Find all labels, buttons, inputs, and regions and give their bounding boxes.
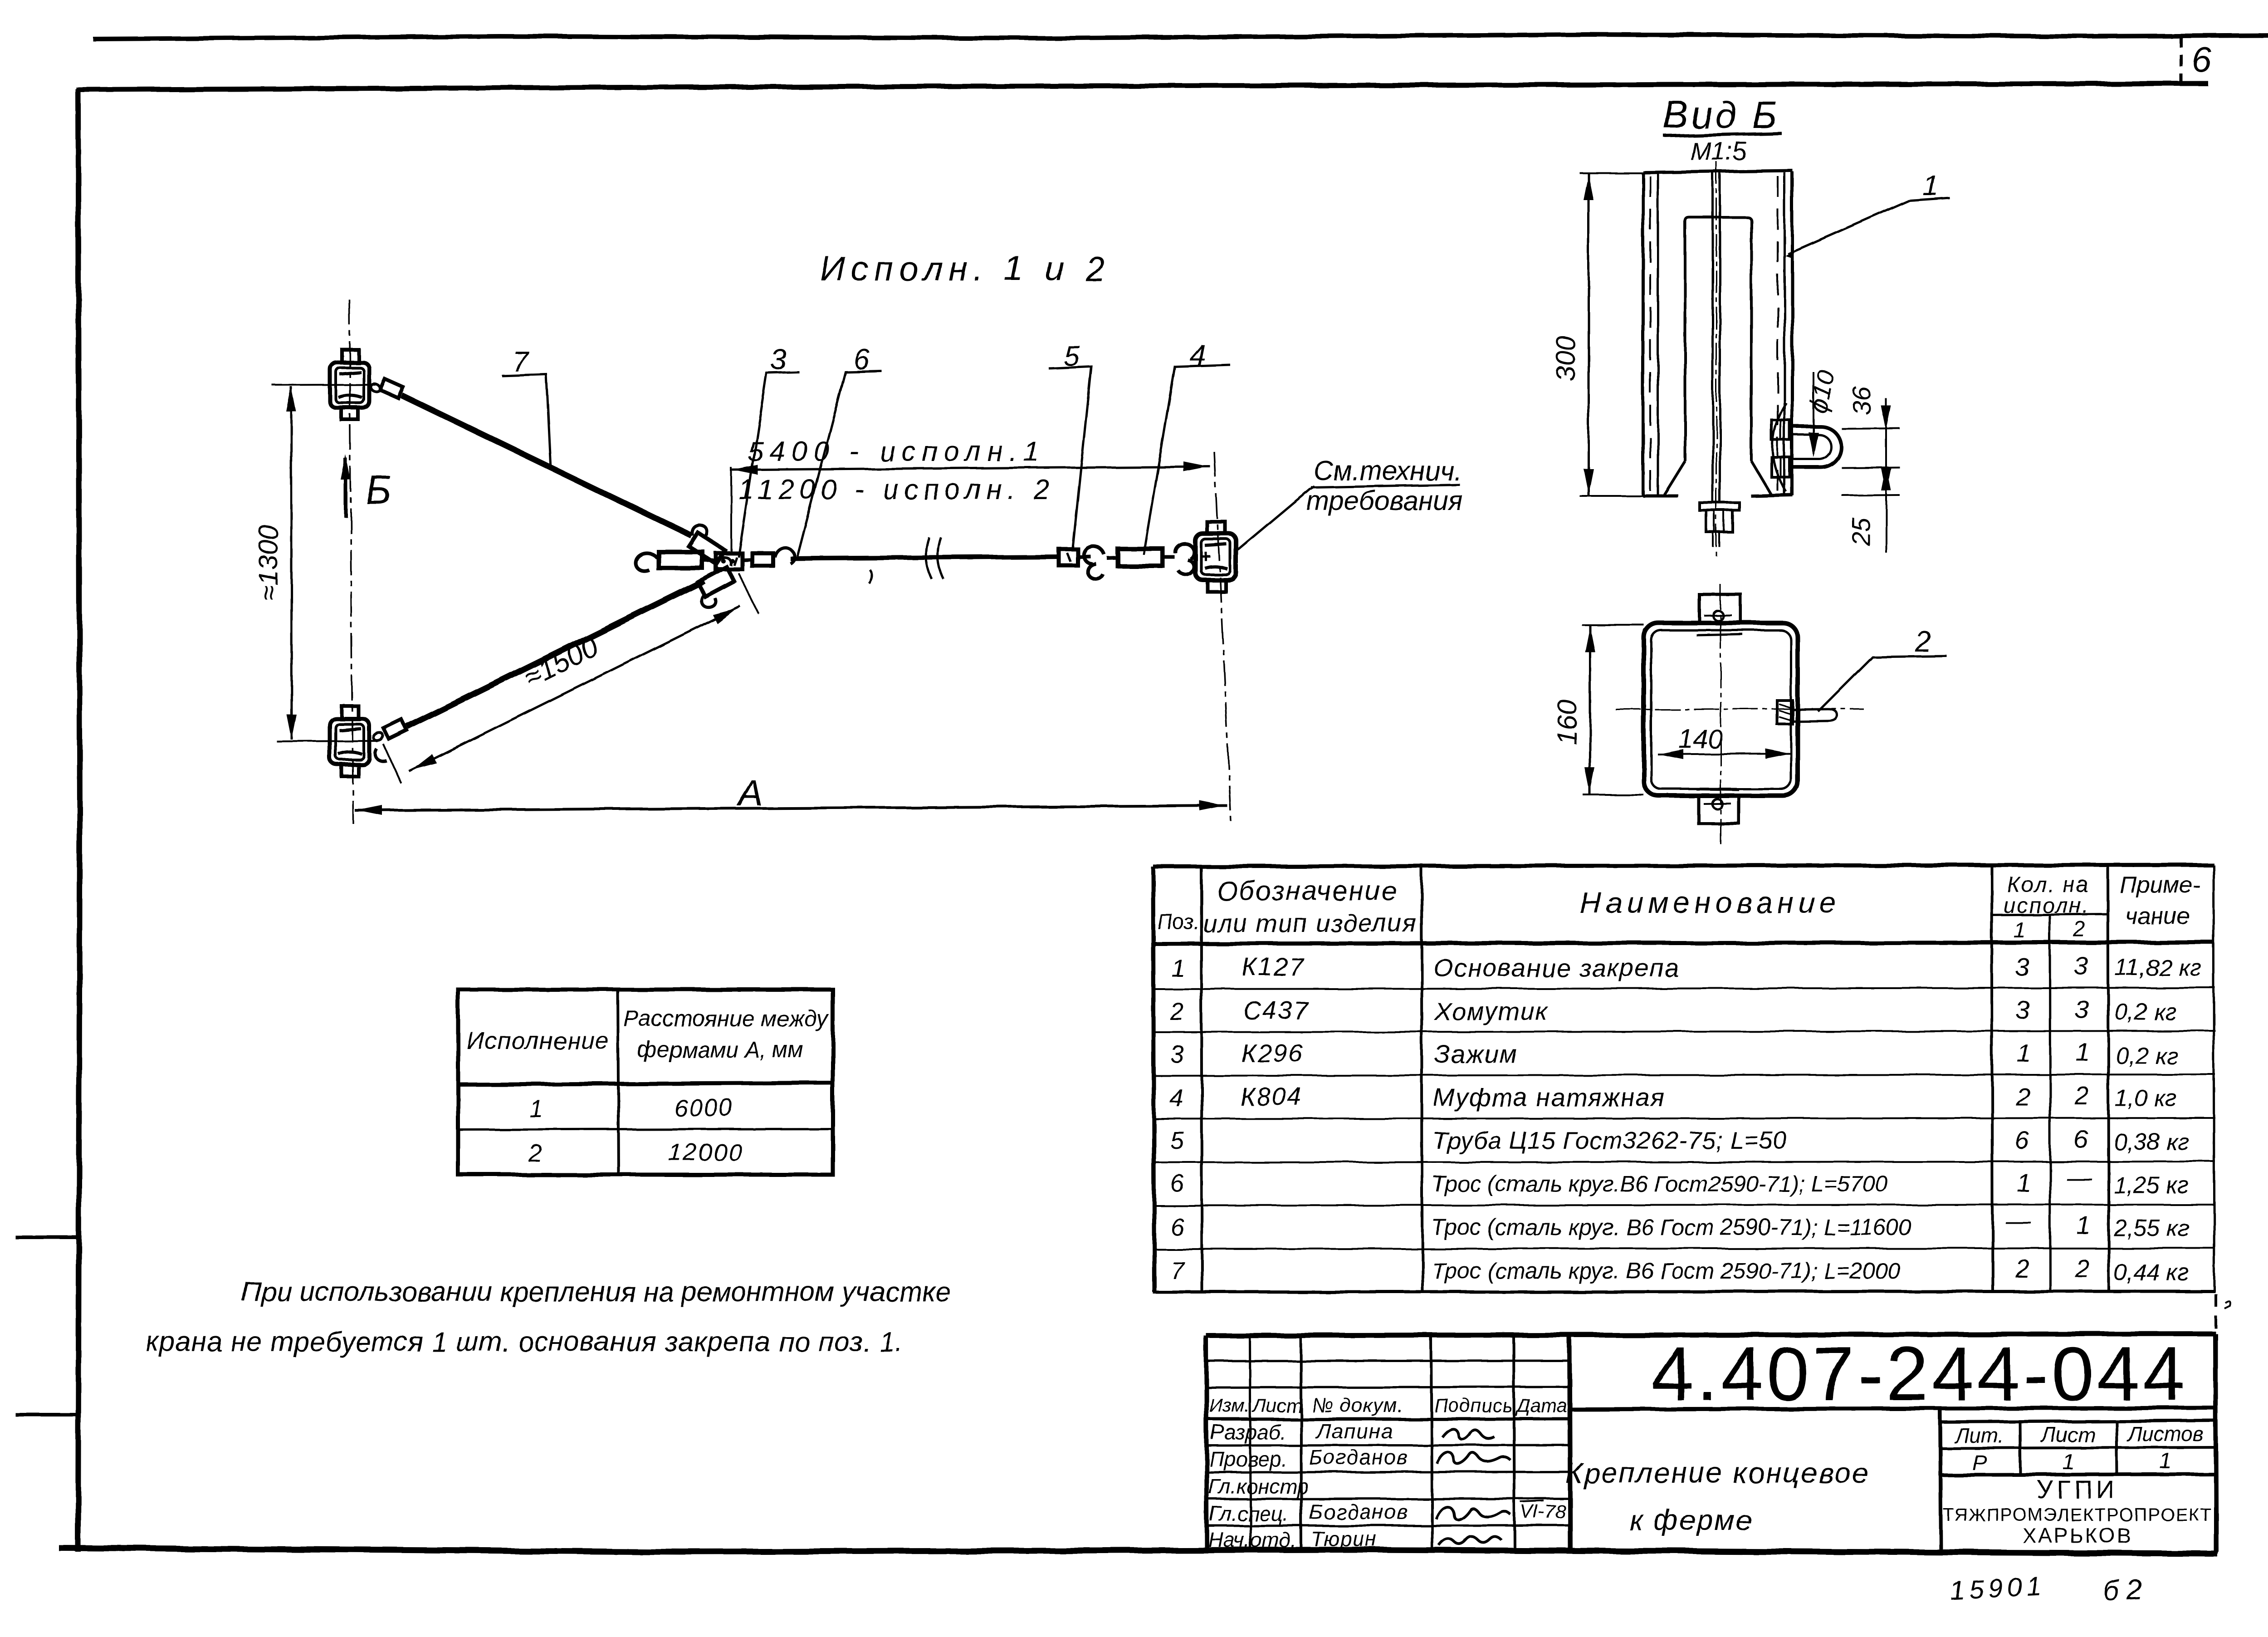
svg-text:25: 25: [1847, 517, 1875, 546]
svg-text:Муфта натяжная: Муфта натяжная: [1433, 1083, 1665, 1112]
svg-text:2: 2: [1915, 625, 1931, 658]
svg-text:исполн.: исполн.: [2004, 894, 2090, 918]
svg-text:М1:5: М1:5: [1690, 137, 1747, 165]
svg-text:1: 1: [1171, 955, 1185, 982]
dim 36: [1842, 428, 1900, 468]
svg-text:К804: К804: [1240, 1082, 1303, 1111]
anchor base K127 right (pos.1): [1195, 522, 1236, 592]
execution table grid: [458, 990, 833, 1175]
lower cable ferrule at junction: [698, 567, 734, 607]
svg-text:Хомутик: Хомутик: [1433, 997, 1549, 1025]
parts table row 6: [1170, 1163, 2189, 1199]
svg-text:Крепление концевое: Крепление концевое: [1565, 1456, 1869, 1489]
svg-text:К296: К296: [1241, 1039, 1304, 1067]
svg-text:фермами А, мм: фермами А, мм: [637, 1037, 803, 1062]
svg-text:11200 - исполн. 2: 11200 - исполн. 2: [738, 474, 1055, 505]
frame bottom line: [59, 1548, 2217, 1554]
svg-text:Труба Ц15 Гост3262-75; L=50: Труба Ц15 Гост3262-75; L=50: [1432, 1127, 1788, 1154]
dim 300: [1579, 173, 1643, 496]
svg-text:160: 160: [1552, 700, 1582, 745]
svg-text:—: —: [2066, 1163, 2092, 1191]
svg-text:№ докум.: № докум.: [1312, 1394, 1403, 1416]
svg-text:Расстояние между: Расстояние между: [624, 1006, 830, 1031]
svg-text:1: 1: [2076, 1038, 2090, 1066]
pipe piece (pos.5) on cable: [1059, 549, 1078, 565]
svg-text:Трос (сталь круг. В6 Гост 2590: Трос (сталь круг. В6 Гост 2590-71); L=11…: [1432, 1215, 1911, 1240]
svg-text:требования: требования: [1306, 485, 1463, 516]
svg-text:Тюрин: Тюрин: [1311, 1527, 1378, 1551]
svg-text:1: 1: [2017, 1039, 2031, 1067]
svg-text:3: 3: [2016, 996, 2030, 1024]
square clamp bolt right: [1777, 701, 1837, 724]
svg-text:1,25 кг: 1,25 кг: [2114, 1172, 2189, 1199]
svg-text:2,55 кг: 2,55 кг: [2113, 1215, 2189, 1241]
svg-text:0,38 кг: 0,38 кг: [2114, 1129, 2189, 1155]
svg-text:Гл.спец.: Гл.спец.: [1209, 1502, 1289, 1525]
turnbuckle K804 left (pos.4): [635, 552, 716, 571]
svg-text:б2: б2: [2102, 1573, 2150, 1607]
svg-text:3: 3: [2015, 952, 2029, 981]
svg-text:1: 1: [2017, 1168, 2031, 1197]
svg-text:Подпись: Подпись: [1434, 1395, 1513, 1416]
svg-text:1: 1: [1922, 169, 1939, 201]
svg-text:Поз.: Поз.: [1158, 910, 1200, 934]
anchor rod through channel: [1700, 162, 1740, 557]
svg-text:ХАРЬКОВ: ХАРЬКОВ: [2023, 1524, 2133, 1547]
anchor base K127 upper (pos.1): [272, 349, 377, 420]
upper cable ferrule at junction: [689, 525, 731, 565]
svg-text:Лит.: Лит.: [1954, 1424, 2004, 1447]
svg-text:С437: С437: [1243, 996, 1309, 1024]
left truss centerline (dash-dot): [349, 299, 353, 823]
svg-text:К127: К127: [1242, 952, 1305, 981]
svg-text:Нач.отд.: Нач.отд.: [1208, 1528, 1296, 1552]
svg-text:Трос (сталь круг. В6 Гост 2590: Трос (сталь круг. В6 Гост 2590-71); L=20…: [1432, 1258, 1900, 1284]
svg-text:7: 7: [1170, 1257, 1185, 1284]
square clamp centerlines: [1720, 584, 1721, 845]
svg-text:ТЯЖПРОМЭЛЕКТРОПРОЕКТ: ТЯЖПРОМЭЛЕКТРОПРОЕКТ: [1943, 1505, 2212, 1525]
svg-text:Богданов: Богданов: [1309, 1446, 1409, 1469]
turnbuckle K804 right (pos.4): [1107, 544, 1194, 574]
fold mark left upper: [15, 1235, 78, 1239]
svg-text:0,2 кг: 0,2 кг: [2116, 1043, 2178, 1069]
svg-text:Наименование: Наименование: [1579, 886, 1841, 919]
svg-text:или тип изделия: или тип изделия: [1202, 909, 1417, 937]
sheet top edge line: [93, 34, 2268, 39]
svg-text:12000: 12000: [668, 1139, 743, 1166]
tech note leader: [1237, 486, 1315, 550]
svg-text:6: 6: [2015, 1126, 2029, 1154]
frame top line: [76, 83, 2208, 90]
svg-text:Исполн. 1 и 2: Исполн. 1 и 2: [820, 250, 1110, 288]
svg-text:6: 6: [2192, 39, 2212, 79]
svg-text:11,82 кг: 11,82 кг: [2115, 955, 2201, 981]
svg-text:Исполнение: Исполнение: [467, 1027, 609, 1054]
svg-text:2: 2: [2015, 1255, 2030, 1283]
svg-text:1: 1: [2014, 918, 2026, 942]
anchor base K127 lower (pos.1): [277, 706, 377, 776]
svg-text:5: 5: [1170, 1127, 1184, 1154]
svg-text:УГПИ: УГПИ: [2037, 1475, 2118, 1504]
dimension ~1500 (slanted): [383, 744, 401, 783]
svg-text:Лист: Лист: [1251, 1395, 1302, 1416]
small mark under cable: [869, 570, 872, 583]
dimension ~1300: [291, 387, 292, 740]
svg-text:Листов: Листов: [2126, 1422, 2204, 1446]
svg-text:Приме-: Приме-: [2120, 872, 2200, 898]
svg-text:6000: 6000: [674, 1094, 734, 1122]
cable break symbol: [926, 537, 943, 579]
svg-text:4: 4: [1169, 1084, 1183, 1112]
svg-text:чание: чание: [2125, 903, 2190, 929]
svg-text:VI-78: VI-78: [1520, 1501, 1566, 1522]
svg-text:Дата: Дата: [1515, 1395, 1567, 1416]
svg-text:2: 2: [2074, 1254, 2089, 1282]
scan speckle mark: [2224, 1301, 2230, 1309]
S hooks: [1079, 546, 1104, 579]
parts list table grid: [1153, 865, 2215, 1292]
svg-text:2: 2: [528, 1140, 542, 1167]
svg-text:Трос (сталь круг.В6 Гост2590-7: Трос (сталь круг.В6 Гост2590-71); L=5700: [1432, 1171, 1887, 1196]
svg-text:—: —: [2005, 1206, 2032, 1235]
dimension A: [355, 806, 1227, 810]
dim 140: [1657, 753, 1791, 754]
svg-text:Вид Б: Вид Б: [1663, 93, 1779, 136]
svg-text:2: 2: [2073, 917, 2086, 941]
svg-text:2: 2: [2015, 1082, 2030, 1111]
svg-text:крана не требуется 1 шт.: крана не требуется 1 шт. основания закре…: [146, 1326, 903, 1357]
svg-text:3: 3: [2074, 951, 2088, 980]
svg-text:140: 140: [1678, 724, 1722, 754]
svg-text:1: 1: [529, 1095, 543, 1122]
parts table row 7: [1170, 1206, 2189, 1241]
view arrow Б: [344, 458, 347, 517]
cable 7 upper (tros): [402, 396, 691, 535]
svg-text:Б: Б: [366, 467, 391, 512]
parts table row 3: [1170, 1038, 2178, 1069]
right side of clamp: rod, ferrule, hook: [742, 548, 795, 566]
svg-text:6: 6: [2074, 1125, 2088, 1153]
frame left line: [78, 89, 80, 1552]
frame right line (lower part): [2214, 1294, 2217, 1334]
svg-text:Разраб.: Разраб.: [1210, 1420, 1286, 1444]
svg-text:2: 2: [2074, 1081, 2089, 1110]
svg-text:к ферме: к ферме: [1629, 1504, 1753, 1536]
svg-text:1: 1: [2063, 1450, 2075, 1474]
dim 25: [1842, 495, 1900, 495]
dim 160: [1582, 625, 1644, 795]
svg-text:А: А: [737, 773, 763, 813]
svg-text:36: 36: [1848, 387, 1876, 415]
clamp K296 (pos.3) at junction: [716, 553, 742, 569]
title block grid: [1206, 1334, 2216, 1552]
svg-text:15901: 15901: [1949, 1571, 2046, 1606]
parts table row 5: [1170, 1125, 2189, 1155]
svg-text:Основание закрепа: Основание закрепа: [1433, 953, 1680, 982]
svg-text:3: 3: [2075, 995, 2089, 1024]
svg-text:4.407-244-044: 4.407-244-044: [1651, 1331, 2188, 1416]
svg-text:6: 6: [1170, 1213, 1184, 1240]
parts table row 8: [1170, 1254, 2189, 1286]
svg-text:Зажим: Зажим: [1434, 1039, 1518, 1068]
page number tick: [2180, 35, 2183, 86]
svg-text:См.технич.: См.технич.: [1314, 456, 1461, 486]
svg-text:3: 3: [1170, 1041, 1184, 1068]
svg-text:При использовании крепления: При использовании крепления на ремонтном…: [241, 1276, 951, 1307]
right anchor centerline: [1214, 452, 1231, 821]
svg-text:2: 2: [1170, 998, 1184, 1025]
channel bracket K127 side view: [1643, 171, 1793, 496]
svg-text:1: 1: [2077, 1211, 2091, 1240]
svg-text:0,2 кг: 0,2 кг: [2115, 999, 2177, 1025]
svg-text:Богданов: Богданов: [1309, 1500, 1409, 1524]
svg-text:≈1300: ≈1300: [253, 525, 283, 600]
dim F10 leader: [1813, 372, 1814, 454]
clamp C437 top view (square): [1644, 595, 1798, 823]
svg-text:Гл.констр: Гл.констр: [1208, 1475, 1309, 1498]
svg-text:Лист: Лист: [2040, 1423, 2095, 1446]
upper anchor cable link: [370, 379, 404, 398]
svg-text:Обозначение: Обозначение: [1217, 876, 1398, 906]
dimension 5400/11200: [730, 467, 732, 554]
svg-text:1,0 кг: 1,0 кг: [2115, 1085, 2177, 1112]
svg-text:Лапина: Лапина: [1315, 1419, 1393, 1443]
svg-text:300: 300: [1550, 336, 1581, 381]
svg-text:3: 3: [770, 343, 787, 376]
parts table row 2: [1170, 995, 2177, 1025]
fold mark left lower: [15, 1413, 78, 1416]
cable 7 lower (tros): [407, 581, 704, 727]
svg-text:Р: Р: [1972, 1451, 1987, 1475]
svg-text:Провер.: Провер.: [1209, 1447, 1287, 1471]
U-bolt clamp C437 on channel: [1772, 403, 1841, 492]
svg-text:5400 - исполн.1: 5400 - исполн.1: [748, 436, 1046, 467]
svg-text:0,44 кг: 0,44 кг: [2114, 1260, 2189, 1286]
svg-text:Изм.: Изм.: [1209, 1395, 1250, 1416]
cable (pos.6) horizontal: [790, 557, 1059, 559]
svg-text:1: 1: [2160, 1449, 2172, 1473]
svg-text:6: 6: [1170, 1170, 1184, 1197]
parts table row 4: [1169, 1081, 2177, 1112]
parts table row 1: [1171, 951, 2201, 982]
svg-text:7: 7: [512, 345, 529, 377]
lower anchor cable link: [372, 720, 407, 761]
